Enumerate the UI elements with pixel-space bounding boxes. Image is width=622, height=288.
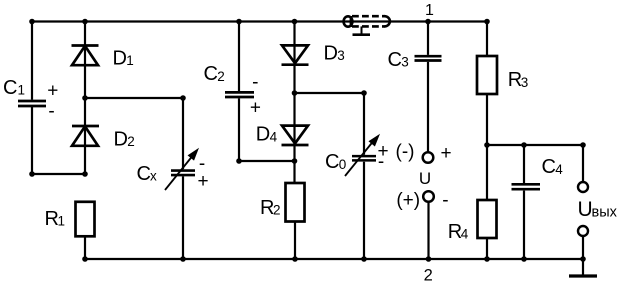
wire Uvyh top — [582, 145, 584, 182]
svg-text:2: 2 — [273, 203, 281, 218]
shield left bar — [350, 16, 352, 27]
wire C3 to terminal — [427, 62, 429, 152]
wire R3 vertical top — [486, 22, 488, 57]
node dot C2-D4 junction left — [236, 158, 242, 164]
wire bottom bus node2 — [85, 258, 583, 260]
node dot R2 bus — [292, 256, 298, 262]
diode D4 — [282, 126, 309, 145]
svg-text:+: + — [250, 97, 261, 118]
wire Cx vertical top — [182, 98, 184, 169]
node dot C2-D4 junction right — [292, 158, 298, 164]
shield ground stub — [361, 26, 363, 34]
diode D2 — [72, 126, 99, 146]
svg-text:D: D — [256, 124, 270, 146]
svg-text:1: 1 — [425, 2, 434, 19]
wire C2 to D4 cathode — [239, 160, 295, 162]
node dot Cx corner — [180, 95, 186, 101]
node dot D1-D2 junction — [82, 95, 88, 101]
node dot D1 top — [82, 19, 88, 25]
svg-text:C: C — [3, 77, 17, 99]
node dot Uvyh corner — [580, 142, 586, 148]
node dot top-left corner — [29, 19, 35, 25]
shield right cap — [385, 16, 390, 26]
wire C4 vertical top — [523, 145, 525, 183]
wire right horizontal — [487, 144, 583, 146]
capacitor C0 plates — [352, 156, 376, 160]
capacitor C3 — [415, 56, 442, 60]
diode D1 — [72, 46, 99, 66]
svg-text:3: 3 — [337, 48, 345, 63]
resistor R2 — [286, 183, 305, 222]
svg-text:D: D — [113, 47, 127, 69]
capacitor C1 — [18, 101, 46, 106]
node dot R3 top — [484, 19, 490, 25]
svg-text:(+): (+) — [396, 190, 420, 211]
svg-text:+: + — [197, 171, 208, 192]
svg-text:D: D — [324, 42, 338, 64]
svg-text:2: 2 — [424, 267, 433, 285]
svg-text:-: - — [442, 190, 448, 211]
shield dashed top — [352, 15, 385, 18]
wire C1 vertical bottom — [31, 107, 33, 174]
wire C0 vertical bottom — [363, 162, 365, 259]
svg-text:C: C — [325, 151, 339, 173]
capacitor C2 — [225, 92, 254, 97]
wire D3-D4 branch vertical x294.5 — [293, 22, 295, 184]
svg-text:3: 3 — [401, 55, 409, 70]
node dot D2 bottom — [82, 171, 88, 177]
shield ground bar — [353, 33, 371, 36]
svg-text:D: D — [114, 128, 128, 150]
wire C0 vertical top — [363, 93, 365, 155]
shield screen symbol circle — [344, 16, 353, 26]
svg-text:C: C — [137, 163, 151, 185]
svg-text:2: 2 — [217, 69, 225, 84]
wire C4 bottom — [523, 191, 525, 259]
node dot R3 bottom junction — [484, 142, 490, 148]
capacitor Cx plates — [171, 171, 195, 176]
capacitor C4 — [512, 184, 541, 189]
node dot D3 top — [292, 19, 298, 25]
svg-text:-: - — [48, 101, 54, 122]
svg-text:3: 3 — [521, 75, 529, 90]
node dot Cx bus — [180, 256, 186, 262]
ground — [582, 259, 584, 275]
node dot ground bus — [580, 256, 586, 262]
svg-text:C: C — [542, 156, 556, 178]
wire diode branch vertical x85 — [84, 22, 86, 175]
wire D1-D2 junction to Cx — [85, 97, 183, 99]
wire R4 vertical top — [486, 145, 488, 200]
svg-text:U: U — [578, 198, 593, 221]
svg-text:4: 4 — [270, 129, 278, 144]
node dot C1 bottom corner — [29, 171, 35, 177]
wire C2 vertical bottom — [238, 98, 240, 161]
node dot C0 corner — [361, 90, 367, 96]
svg-text:U: U — [419, 169, 431, 188]
node dot C4 top — [521, 142, 527, 148]
wire terminal to bottom bus — [427, 202, 429, 259]
resistor R4 — [478, 200, 497, 238]
wire R2 bottom — [294, 222, 296, 260]
svg-text:0: 0 — [339, 157, 347, 172]
svg-text:4: 4 — [555, 162, 563, 177]
svg-text:-: - — [252, 72, 258, 93]
svg-text:2: 2 — [127, 134, 135, 149]
terminal Uvyh lower — [578, 226, 588, 236]
terminal Uvyh upper — [578, 182, 588, 192]
resistor R1 — [76, 202, 95, 237]
wire horizontal C1 to D2 bottom — [32, 173, 85, 175]
capacitor Cx variable arrow — [165, 157, 192, 191]
diode D3 — [282, 45, 309, 64]
resistor R3 — [477, 56, 497, 94]
wire D3-D4 junction to C0 — [295, 92, 365, 94]
svg-text:4: 4 — [461, 227, 469, 242]
wire C2 vertical top — [238, 22, 240, 92]
wire C3 vertical top — [427, 22, 429, 55]
node dot 1 — [425, 19, 431, 25]
node dot C4 bus — [521, 256, 527, 262]
capacitor C0 variable arrow — [345, 142, 373, 177]
svg-text:(-): (-) — [396, 142, 415, 163]
node dot R1 bus — [82, 256, 88, 262]
node dot D3-D4 junction — [292, 90, 298, 96]
svg-text:1: 1 — [58, 214, 66, 229]
node dot C0 bus — [361, 256, 367, 262]
wire Cx vertical bottom — [182, 176, 184, 259]
node dot 2 — [426, 256, 432, 262]
wire R3 bottom — [486, 94, 488, 145]
svg-text:C: C — [204, 63, 218, 85]
svg-text:1: 1 — [18, 83, 26, 98]
wire R1 bottom — [84, 236, 86, 259]
svg-text:-: - — [378, 151, 384, 172]
node dot R4 bus — [484, 256, 490, 262]
svg-text:C: C — [388, 49, 402, 71]
wire left branch C1 vertical top — [31, 22, 33, 100]
wire Uvyh lower to bus — [582, 236, 584, 259]
shield dashed bottom — [352, 25, 385, 28]
svg-text:+: + — [440, 143, 451, 164]
terminal lower (+) — [423, 191, 434, 202]
svg-text:+: + — [47, 80, 58, 101]
terminal upper (-) — [423, 152, 434, 163]
wire R4 bottom — [486, 238, 488, 259]
svg-text:x: x — [150, 168, 157, 183]
wire top bus node1 — [32, 20, 487, 22]
svg-text:1: 1 — [126, 53, 134, 68]
node dot C2 top — [236, 19, 242, 25]
svg-text:вых: вых — [592, 205, 618, 221]
